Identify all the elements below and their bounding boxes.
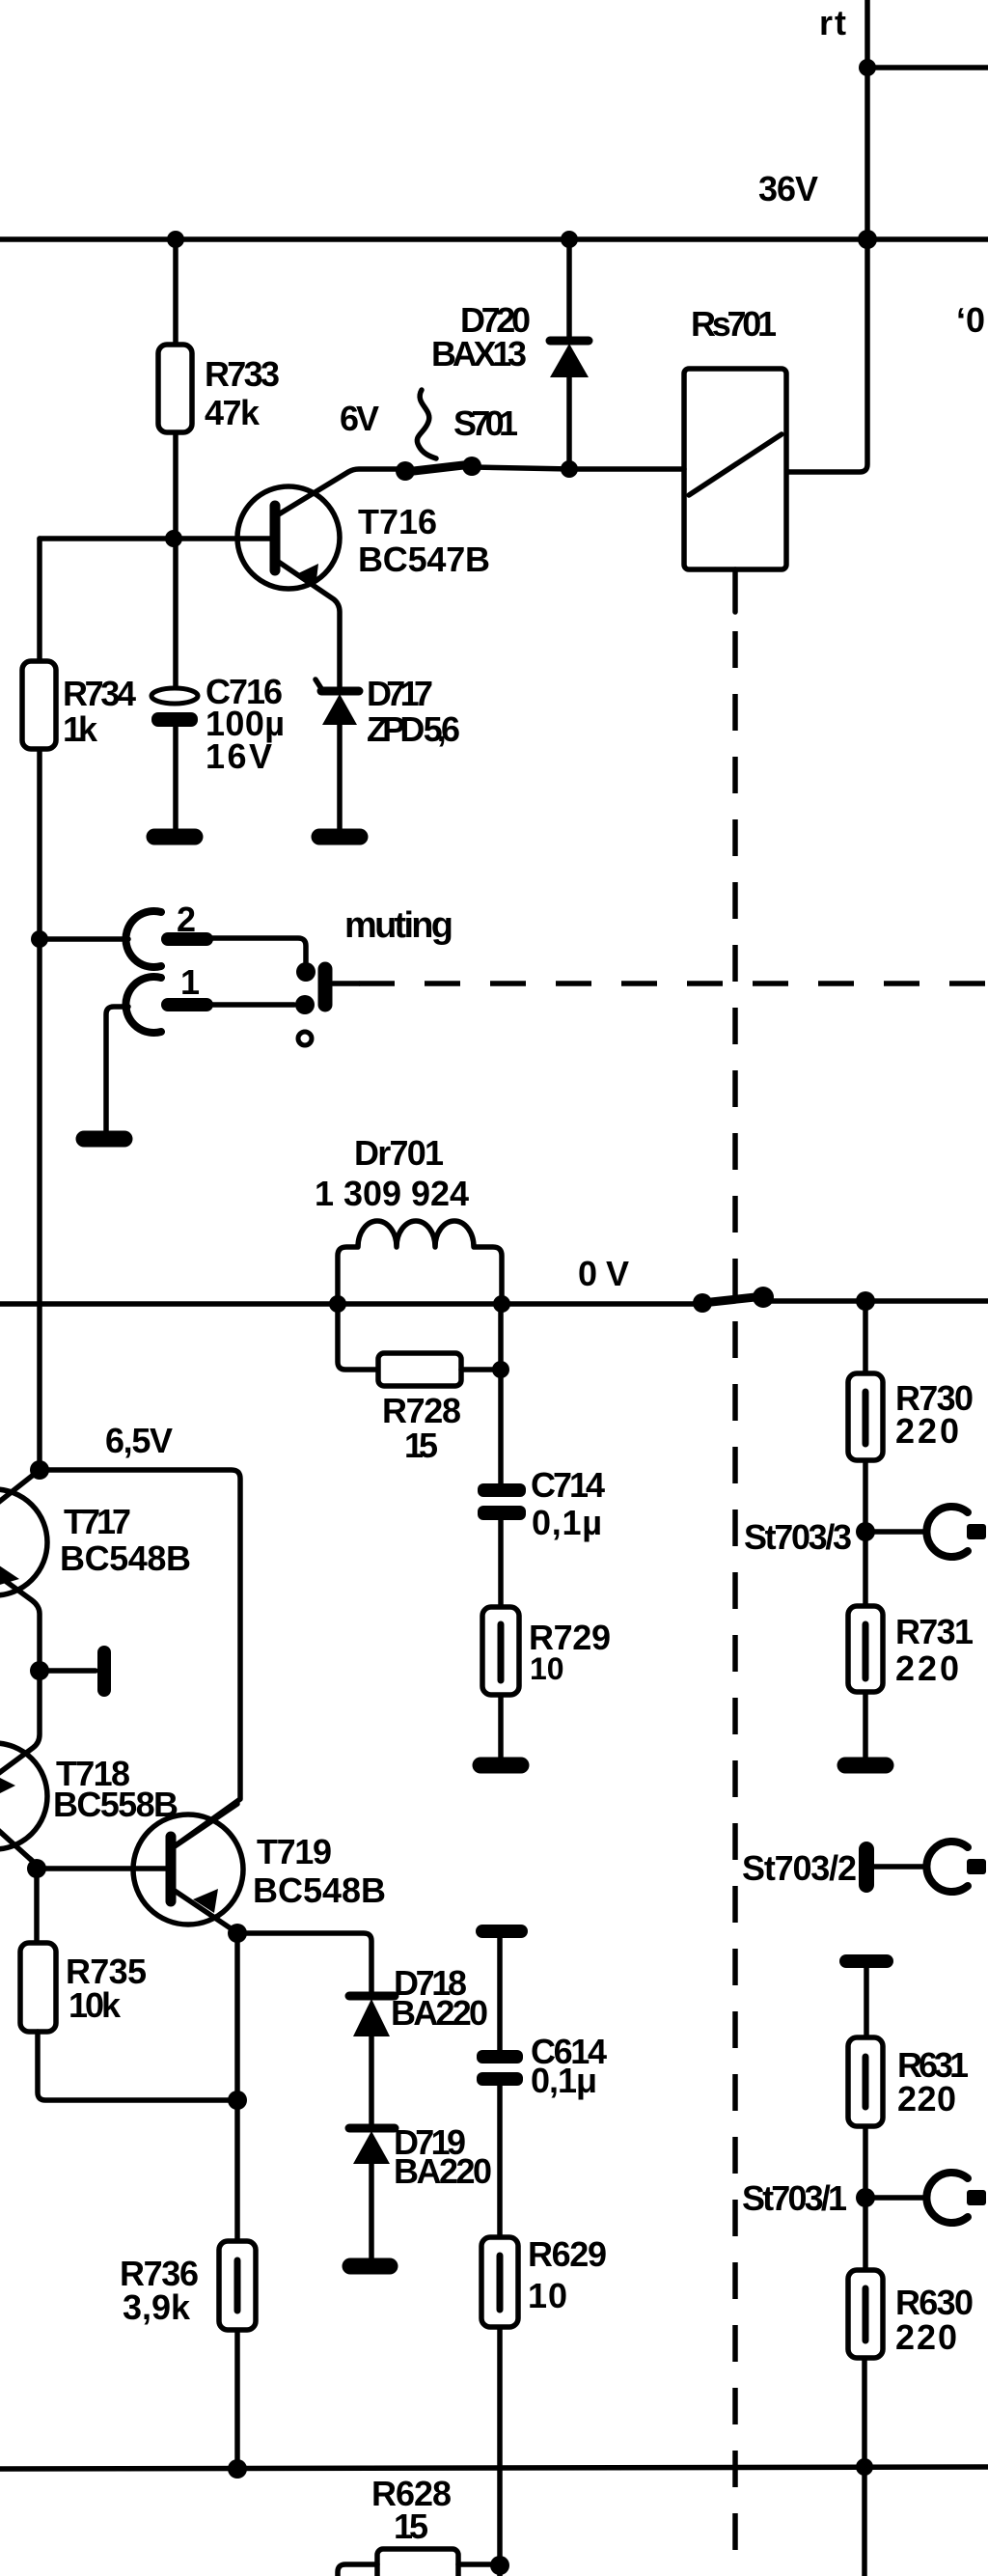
svg-text:3,9k: 3,9k [123,2287,191,2327]
junction T719 emitter [228,1924,247,1943]
contact dot upper [296,962,316,982]
svg-text:BC548B: BC548B [60,1538,191,1578]
svg-text:1: 1 [180,962,200,1002]
open terminal bar below D719 [350,2258,390,2275]
resistor R728 parallel loop [338,1304,378,1370]
jack pin 2 [168,932,206,946]
wire: bottom rail full width [0,2467,988,2469]
svg-text:St703/2: St703/2 [742,1848,857,1888]
svg-text:1k: 1k [63,709,98,749]
zener diode D717 (ZPD 5,6) [321,687,359,696]
resistor R730 [848,1373,883,1460]
switch on 0V rail [702,1296,764,1303]
node St703/1 [856,2188,875,2207]
svg-text:BC558B: BC558B [53,1785,178,1824]
svg-text:BC547B: BC547B [358,540,490,579]
svg-text:T716: T716 [358,502,437,541]
svg-text:Rs701: Rs701 [691,304,777,344]
dashed separation line vertical [732,631,738,2576]
junction left vertical / jack2 [31,930,48,948]
svg-text:S701: S701 [453,403,518,443]
svg-text:47k: 47k [205,393,261,432]
svg-text:15: 15 [404,1426,438,1465]
resistor R736 [219,2241,256,2330]
svg-text:C714: C714 [531,1465,605,1505]
transistor T719 (BC548B) [133,1814,243,1925]
junction T718 emitter / T719 base [27,1859,46,1878]
wire to jack 2 [40,936,128,942]
transistor T716 (BC547B) [237,486,340,589]
transistor T717 (BC548B) partial at edge [0,1489,47,1595]
open terminal bar above R631 [846,1954,887,1968]
capacitor stub plate [40,1668,96,1674]
wire: 0V rail left part [0,1301,702,1307]
resistor R729 [482,1607,519,1695]
wire jack1 shell to ground [106,1007,128,1132]
jack pin 1 [168,998,206,1011]
junction base/R733 column [165,530,182,547]
junction 0V/right column [856,1291,875,1311]
svg-text:BA220: BA220 [394,2151,492,2191]
T716 emitter arrow [294,564,318,588]
wire jack1 to switch contact [206,1002,294,1008]
svg-text:R728: R728 [382,1391,461,1430]
svg-text:ZPD 5,6: ZPD 5,6 [367,709,460,749]
ground below D717 [319,829,360,845]
relay Rs701 [684,369,786,569]
svg-text:D717: D717 [367,674,433,713]
wire: base wire to T719 [37,1866,166,1871]
junction R736/rail [228,2459,247,2479]
T719 emitter [175,1891,237,2241]
svg-text:R733: R733 [205,354,280,394]
junction R728 right [492,1361,509,1378]
wire jack2 to switch contact [206,938,306,962]
junction capacitor stub [30,1661,49,1680]
wire: relay bottom stub [732,569,738,612]
wire: horizontal branch at y=70 to right edge [867,65,988,70]
wire: relay coil left lead [569,466,684,472]
junction R735/R736 [228,2091,247,2110]
junction R630 column/rail [856,2458,873,2476]
svg-text:10k: 10k [69,1985,122,2025]
jack socket 1 [125,977,161,1033]
jack socket 2 [125,911,161,967]
resistor R731 [848,1606,883,1692]
resistor R630 [848,2270,883,2358]
svg-text:16V: 16V [206,736,272,776]
capacitor C614 [477,2050,523,2064]
muting switch bar [318,969,333,1005]
junction Dr701 right [493,1295,510,1313]
svg-text:220: 220 [895,1648,959,1688]
svg-text:6,5V: 6,5V [105,1421,173,1460]
svg-text:220: 220 [895,2317,957,2357]
capacitor C716 (100u electrolytic) [173,539,178,689]
svg-text:0,1µ: 0,1µ [532,1503,602,1542]
wire: long left vertical from base corner down [37,539,42,1470]
svg-text:T719: T719 [257,1832,332,1871]
wire: emitter branch to diodes [237,1933,371,1994]
ground below C716 [154,829,195,845]
svg-text:2: 2 [177,900,196,939]
svg-text:10: 10 [528,2276,567,2315]
wire 0V junction down to R730 [863,1301,868,1376]
svg-text:BA220: BA220 [391,1993,488,2033]
svg-text:ʻ0: ʻ0 [956,300,985,340]
jack St703/1 [865,2195,924,2201]
ground below R729 [480,1758,521,1774]
resistor R629 [481,2237,518,2327]
svg-text:T717: T717 [64,1502,131,1541]
svg-text:muting: muting [344,905,453,946]
svg-text:15: 15 [394,2507,428,2546]
dashed control line from muting switch [333,981,359,986]
svg-text:St703/1: St703/1 [742,2178,847,2218]
svg-text:Dr701: Dr701 [354,1133,444,1173]
resistor R734 [22,661,56,749]
choke Dr701 [338,1221,502,1304]
wire: T716 emitter down to D717 [277,561,340,689]
svg-text:BAX13: BAX13 [431,334,527,374]
junction R628/R629 column [490,2556,509,2575]
resistor R631 [848,2037,883,2126]
open terminal bar above C614 [482,1925,521,1938]
resistor R733 [173,239,178,347]
node St703/3 [856,1522,875,1541]
junction Dr701 left [329,1295,346,1313]
diode D720 (BAX13) [566,239,572,340]
svg-text:1 309 924: 1 309 924 [315,1174,469,1213]
svg-text:rt: rt [819,3,846,42]
wire: 6.5V net to T719 collector [40,1470,240,1845]
wire: 36V rail across full width y=248 [0,236,988,242]
transistor T718 (BC558B) partial at edge [0,1743,47,1849]
wire: T716 base from junction [40,536,270,541]
ground below R731 [845,1758,886,1774]
junction rail/D720 [561,231,578,248]
wire: 0V rail right part [766,1298,988,1304]
open contact circle [298,1032,312,1045]
svg-text:220: 220 [897,2079,956,2119]
svg-text:BC548B: BC548B [253,1870,386,1910]
svg-text:R734: R734 [63,674,136,713]
diode D719 (BA220) [349,2124,395,2133]
svg-text:R731: R731 [895,1612,974,1651]
svg-text:St703/3: St703/3 [744,1517,852,1557]
svg-text:0,1μ: 0,1μ [531,2061,597,2100]
wire R735 bottom to R736 column [38,2032,237,2100]
svg-text:R629: R629 [528,2234,607,2274]
resistor R735 [20,1943,56,2032]
svg-text:6V: 6V [340,399,379,438]
svg-text:10: 10 [530,1651,564,1686]
junction rail/rt line [858,230,877,249]
jack St703/3 [865,1529,924,1535]
diode D718 (BA220) [349,1992,395,2001]
svg-text:220: 220 [895,1411,959,1451]
junction 6.5V [30,1460,49,1480]
T719 collector [175,1804,237,1846]
wire: T716 collector to switch [277,469,405,515]
wire: vertical rt line feeding relay, x=899 [786,0,867,472]
capacitor C714 [498,1304,504,1486]
junction D720/relay wire [561,460,578,478]
switch S701 [405,464,472,472]
svg-text:R630: R630 [895,2283,974,2322]
junction at (899,70) [859,59,876,76]
svg-text:36V: 36V [758,169,818,208]
contact dot lower [295,995,315,1014]
junction rail/R733 [167,231,184,248]
ground below jack 1 [84,1131,124,1148]
